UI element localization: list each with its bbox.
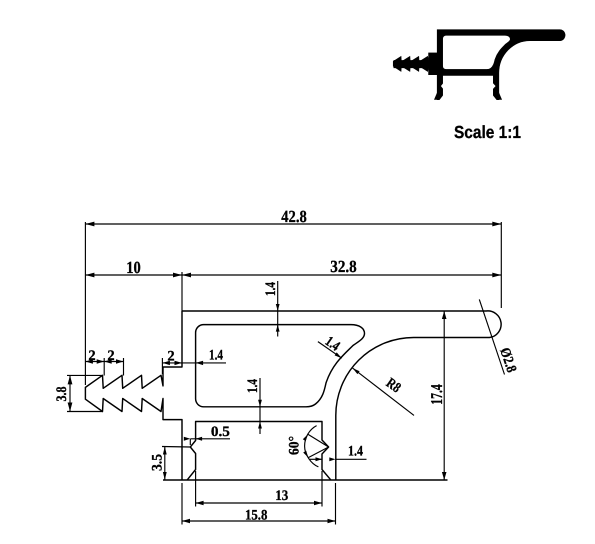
svg-text:3.5: 3.5 [150,454,166,471]
svg-text:42.8: 42.8 [281,207,307,226]
svg-text:1.4: 1.4 [209,348,223,364]
svg-text:0.5: 0.5 [211,424,230,440]
svg-text:2: 2 [107,348,114,364]
svg-text:1.4: 1.4 [245,379,261,393]
svg-text:2: 2 [167,349,174,365]
svg-text:17.4: 17.4 [427,384,446,405]
svg-text:2: 2 [88,348,95,364]
svg-text:10: 10 [126,258,141,277]
svg-text:3.8: 3.8 [54,387,70,402]
svg-text:1.4: 1.4 [348,444,363,460]
svg-text:1.4: 1.4 [263,282,279,296]
svg-text:32.8: 32.8 [330,257,357,276]
svg-text:13: 13 [275,488,288,504]
svg-text:60°: 60° [287,436,303,455]
svg-text:Scale 1:1: Scale 1:1 [454,122,521,142]
svg-text:15.8: 15.8 [245,508,268,524]
